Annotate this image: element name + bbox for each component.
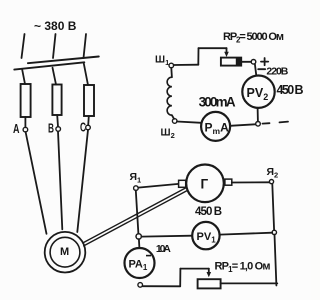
label Ya2 [267,166,279,180]
milliammeter PmA [201,112,230,141]
wire junction down to bottom [275,235,277,286]
svg-text:RР1= 1,0 Ом: RР1= 1,0 Ом [215,260,271,274]
wire terminal to PV2 [255,64,256,75]
terminal Ya2 [269,180,273,184]
wire step to RP1 wiper [180,268,208,270]
wire Ya1 down [136,190,139,233]
voltmeter PV1 [192,222,219,249]
terminal +220V [251,60,256,65]
wire phase B top [53,34,56,58]
terminal B [56,127,61,132]
svg-text:300mА: 300mА [199,94,236,109]
rheostat RP2 wiper arrow [226,48,228,53]
wire fuse F3 to terminal C [87,116,90,125]
shaft coupling motor to generator [83,188,186,243]
generator G [186,165,224,203]
label 300mA [199,94,236,109]
svg-text:С: С [80,120,86,135]
label 450V for PV2 [277,83,304,97]
wire right brush to Ya2 [232,181,270,183]
ammeter PA1 [125,248,155,278]
svg-text:220В: 220В [266,65,288,77]
wire Ya2 down [272,184,274,230]
wire step vertical [179,269,181,287]
wire phase A top [22,34,25,58]
resistor RP1 1.0 Ohm [198,279,221,288]
wire junction to PA1 [138,239,141,248]
terminal Sh2 [172,119,177,124]
wire fuse F1 to terminal A [24,117,26,127]
label - 220V [258,68,265,70]
svg-text:Г: Г [201,177,209,192]
motor M [45,232,86,273]
wire Sh1 to riser [174,64,199,66]
wire fuse F2 to terminal B [56,115,59,127]
svg-text:450 В: 450 В [277,83,304,97]
wire terminal A to motor [26,132,47,234]
svg-text:450 В: 450 В [195,206,222,218]
wire PA1 bottom horizontal [143,285,181,287]
node ammeter junction [136,234,141,239]
svg-text:А: А [13,121,20,136]
switch blade pole A [22,69,25,84]
terminal Sh1 [169,63,174,68]
label Ya1 [130,171,142,185]
svg-text:М: М [60,246,69,258]
fuse F2 [52,85,61,116]
fuse F1 [21,84,31,117]
fuse F3 [84,85,94,116]
switch S1 three-pole knife switch bar [14,62,84,69]
wire PV1 right [220,233,273,235]
wire PV2 bottom [257,108,259,122]
label 450V for PV1 [195,206,222,218]
svg-text:10А: 10А [156,243,171,255]
node excitation minus junction [256,122,261,127]
svg-text:В: В [48,121,54,136]
label + [261,61,268,63]
wire RP2 to +220V terminal [241,61,251,63]
wire dashed to -220V [263,122,270,124]
svg-text:RР2= 5000 Ом: RР2= 5000 Ом [223,31,284,45]
terminal A [23,127,28,132]
coil shunt winding Sh1-Sh2 [170,68,173,77]
rheostat RP1 wiper arrow [208,269,210,274]
resistor RP2 5000 Ohm [221,58,241,66]
terminal Ya1 [134,186,139,191]
wire riser up [197,48,199,64]
switch blade pole C [84,64,88,85]
wire phase C top [84,34,87,58]
label ~380V supply [34,19,77,33]
wire RP1 to right rail [221,282,278,284]
svg-text:~ 380 В: ~ 380 В [34,19,77,33]
brush right of generator [225,179,232,185]
node PV1 right junction [272,230,276,234]
voltmeter PV2 [242,76,274,108]
wire top run to rheostat wiper [199,47,227,49]
wire PV1 left [142,235,193,238]
label 10A [156,243,171,255]
wire terminal C to motor [77,130,88,232]
wire terminal B to motor [58,131,62,229]
brush left of generator [179,180,186,187]
terminal C [86,125,91,130]
label Sh1 [155,55,169,68]
switch blade pole B [53,68,57,85]
terminal PA1 bottom [138,283,143,288]
wire PmA to junction [230,124,256,126]
wire Sh2 to PmA [177,122,201,123]
wire Ya1 to left brush [138,184,178,188]
